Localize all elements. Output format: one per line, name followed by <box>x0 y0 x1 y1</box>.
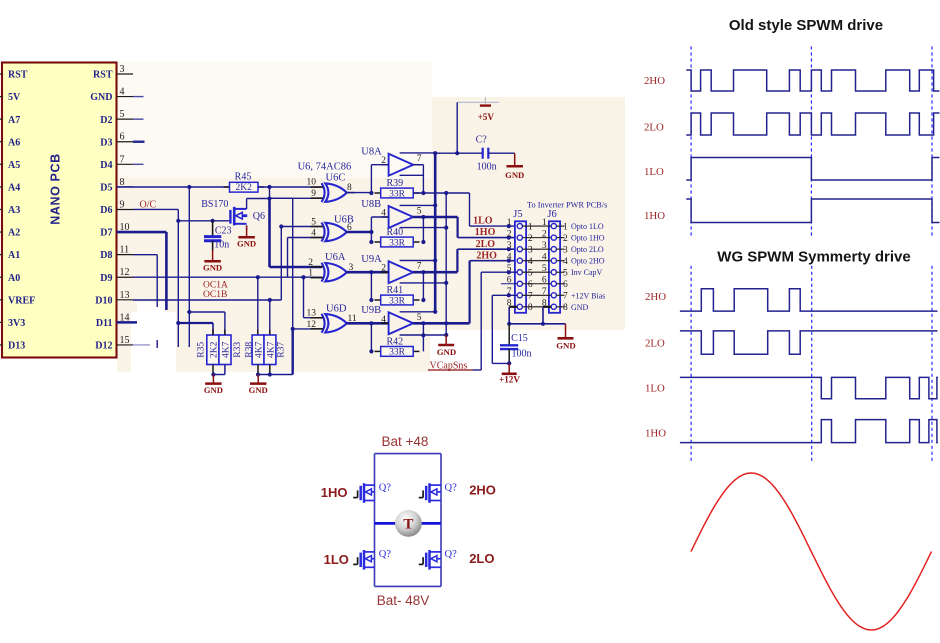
wire remnant <box>156 340 158 348</box>
wire J5-J6 row 1 <box>522 225 551 227</box>
svg-text:Bat +48: Bat +48 <box>382 434 429 449</box>
wire U9B top rail to bus <box>400 311 436 313</box>
svg-text:GND: GND <box>249 385 268 395</box>
svg-text:U9B: U9B <box>361 305 381 316</box>
J6 pin 5 <box>551 270 556 275</box>
wire O/C to Q6 gate <box>178 220 229 222</box>
svg-text:D13: D13 <box>8 341 25 352</box>
resistor R38 4K7 <box>252 335 264 365</box>
svg-text:T: T <box>403 517 413 533</box>
nano right pin D9 (pin 12) <box>117 276 134 278</box>
wire U9A bottom rail <box>400 282 447 284</box>
J5 pin 8 <box>517 304 522 309</box>
svg-text:A1: A1 <box>8 250 20 261</box>
svg-text:Opto 2LO: Opto 2LO <box>571 245 604 254</box>
svg-text:1LO: 1LO <box>645 383 665 395</box>
capacitor C? 100n <box>482 148 484 159</box>
wire U8B output to 1HO (thick) <box>413 216 457 219</box>
wire ground bus x435 (thick) <box>434 153 437 312</box>
svg-text:2HO: 2HO <box>476 250 497 261</box>
svg-text:GND: GND <box>90 92 112 103</box>
svg-text:4: 4 <box>120 87 125 98</box>
svg-text:6: 6 <box>120 132 125 143</box>
svg-text:4: 4 <box>381 315 386 325</box>
nano right pin D3 (pin 6) <box>117 141 134 143</box>
resistor R41 33R <box>375 299 381 301</box>
svg-text:VREF: VREF <box>8 295 35 306</box>
svg-text:2K2: 2K2 <box>236 183 253 193</box>
wire R45 node to U6C pin9 <box>270 197 323 199</box>
J6 pin 7 <box>551 293 556 298</box>
wire bridge top rail <box>375 453 442 455</box>
svg-text:2LO: 2LO <box>476 239 496 250</box>
svg-text:4: 4 <box>311 229 316 239</box>
svg-text:C?: C? <box>476 135 488 146</box>
nano left pin A3 <box>0 208 3 210</box>
svg-text:7: 7 <box>417 262 422 272</box>
J6 pin 3 <box>551 247 556 252</box>
J5 pin 4 <box>517 258 522 263</box>
svg-text:2K2: 2K2 <box>209 341 219 358</box>
J5 pin 2 <box>517 235 522 240</box>
ground R38 <box>257 375 259 383</box>
svg-text:7: 7 <box>417 154 422 164</box>
wire net D7 (pin10) <box>117 231 167 234</box>
svg-text:A7: A7 <box>8 115 20 126</box>
svg-text:U6, 74AC86: U6, 74AC86 <box>298 161 352 172</box>
wire J5-J6 row 3 <box>522 248 551 250</box>
svg-text:1HO: 1HO <box>644 210 665 222</box>
resistor R39 33R <box>375 192 381 194</box>
svg-text:5: 5 <box>542 264 547 274</box>
wire U8A bottom rail <box>400 174 424 176</box>
svg-text:7: 7 <box>528 292 533 302</box>
wire to U6A pin2 <box>270 266 323 269</box>
grid dashed line w2 <box>931 266 933 464</box>
wire O/C vertical <box>177 209 179 347</box>
svg-text:5: 5 <box>120 109 125 120</box>
J6 pin 1 <box>551 224 556 229</box>
svg-text:1LO: 1LO <box>473 215 493 226</box>
svg-text:33R: 33R <box>389 348 406 358</box>
svg-text:2LO: 2LO <box>469 551 494 566</box>
wire C15 bottom node <box>508 349 510 363</box>
wire OC1A branch to U6D pin13 <box>303 277 305 317</box>
svg-text:U8A: U8A <box>361 147 382 158</box>
svg-text:RST: RST <box>8 70 28 81</box>
wire stub pin6 <box>133 140 145 143</box>
svg-text:15: 15 <box>120 335 130 346</box>
nano right pin D4 (pin 7) <box>117 163 134 165</box>
svg-text:3: 3 <box>528 245 533 255</box>
nano right pin D12 (pin 15) <box>117 344 134 346</box>
svg-text:33R: 33R <box>389 238 406 248</box>
svg-text:5V: 5V <box>8 92 21 103</box>
wire bus top to C? <box>435 152 483 154</box>
J5 pin 6 <box>517 281 522 286</box>
ground R35 <box>212 375 214 383</box>
xor gate U6A <box>325 263 347 281</box>
svg-text:5: 5 <box>311 217 316 227</box>
grid dashed line t2 <box>931 46 933 237</box>
svg-text:7: 7 <box>542 287 547 297</box>
resistor R40 33R <box>375 241 381 243</box>
nano right pin D5 (pin 8) <box>117 186 134 188</box>
svg-text:5: 5 <box>417 313 422 323</box>
nano left pin A1 <box>0 254 3 256</box>
wire R40 output vertical <box>422 217 424 242</box>
svg-text:D7: D7 <box>100 228 112 239</box>
svg-text:C15: C15 <box>511 333 528 344</box>
grid dashed line t0 <box>690 46 692 237</box>
svg-text:1HO: 1HO <box>321 485 348 500</box>
wire R38/R37 bottoms rail <box>257 365 259 375</box>
svg-text:R37: R37 <box>277 342 287 358</box>
J5 pin 1 <box>517 224 522 229</box>
svg-text:2HO: 2HO <box>645 291 666 303</box>
wire OC1B up to U6B pin5 <box>280 227 282 301</box>
wire +12V to J5 pin7 <box>492 294 517 296</box>
svg-text:+12V: +12V <box>499 375 520 385</box>
wire U8A input <box>370 165 372 193</box>
resistor R35 2K2 <box>207 335 219 365</box>
svg-text:To Inverter PWR PCB/s: To Inverter PWR PCB/s <box>527 200 607 209</box>
nano right pin D6 (pin 9) <box>117 208 134 210</box>
J6 pin 6 <box>551 281 556 286</box>
svg-text:GND: GND <box>571 303 589 312</box>
svg-text:13: 13 <box>120 290 130 301</box>
svg-text:3: 3 <box>542 241 547 251</box>
svg-text:D5: D5 <box>100 183 112 194</box>
svg-text:A6: A6 <box>8 137 20 148</box>
wire net OC1A (pin12) to U6A pin1 <box>133 276 322 278</box>
svg-text:O/C: O/C <box>140 199 157 210</box>
wire J5-J6 row 2 <box>522 237 551 239</box>
wire stub pin7 <box>133 163 144 165</box>
nano left pin A2 <box>0 231 3 233</box>
xor gate U6C (U6 74AC86) <box>325 183 347 201</box>
svg-text:3: 3 <box>507 241 512 251</box>
svg-text:GND: GND <box>556 341 576 351</box>
svg-text:D12: D12 <box>95 341 112 352</box>
svg-text:9: 9 <box>311 189 316 199</box>
svg-text:7: 7 <box>563 292 568 302</box>
svg-text:R33: R33 <box>233 342 243 358</box>
svg-text:OC1B: OC1B <box>203 290 227 300</box>
transistor Q? 1LO low-side <box>363 550 366 570</box>
xor gate U6B <box>325 223 347 241</box>
wire J5 pin8 to ground rail <box>509 306 517 308</box>
ground Q6 source <box>246 225 248 230</box>
svg-text:2: 2 <box>528 234 533 244</box>
wire J5-J6 row 7 <box>522 294 551 296</box>
svg-text:4: 4 <box>507 252 512 262</box>
svg-text:U6D: U6D <box>326 303 347 314</box>
wire R45 output to U6C pin 10 <box>258 186 322 188</box>
svg-text:WG SPWM Symmerty drive: WG SPWM Symmerty drive <box>717 249 910 266</box>
svg-text:6: 6 <box>347 223 352 233</box>
wire U6D output pin11 <box>347 322 389 325</box>
svg-text:R35: R35 <box>197 342 207 358</box>
svg-text:Q?: Q? <box>379 549 392 560</box>
nano right pin RST (pin 3) <box>117 73 134 75</box>
svg-text:33R: 33R <box>389 296 406 306</box>
svg-text:5: 5 <box>528 269 533 279</box>
nano right pin D2 (pin 5) <box>117 118 134 120</box>
svg-text:A0: A0 <box>8 273 20 284</box>
svg-text:D8: D8 <box>100 250 112 261</box>
wire R42 output vertical <box>422 323 424 351</box>
wire U6A output pin3 <box>347 271 389 274</box>
svg-text:2LO: 2LO <box>645 338 665 350</box>
wire U9A input/R41 drop <box>370 272 372 300</box>
svg-text:J5: J5 <box>513 209 522 220</box>
ground C23 <box>212 241 214 251</box>
svg-text:C23: C23 <box>215 225 232 236</box>
wire U8B input <box>370 217 372 242</box>
svg-text:8: 8 <box>347 183 352 193</box>
wire R41 output vertical <box>422 272 424 300</box>
resistor R42 33R <box>375 350 381 352</box>
svg-text:R39: R39 <box>387 178 404 189</box>
J6 pin 2 <box>551 235 556 240</box>
nano left pin 5V <box>0 96 3 98</box>
nano left pin RST <box>0 73 3 75</box>
svg-text:8: 8 <box>528 303 533 313</box>
nano left pin A0 <box>0 276 3 278</box>
wire OC1B branch to R37 <box>269 300 271 335</box>
capacitor C23 10n <box>212 221 214 236</box>
wire net O/C from pin9 <box>133 208 178 210</box>
svg-text:2: 2 <box>507 229 512 239</box>
wire net D5 (pin8) to R45 <box>117 186 230 188</box>
svg-text:6: 6 <box>542 276 547 286</box>
schematic background tint <box>117 178 430 372</box>
svg-text:4: 4 <box>563 257 568 267</box>
svg-text:Q?: Q? <box>445 482 458 493</box>
wire U6B output pin6 <box>347 231 372 234</box>
svg-text:1LO: 1LO <box>644 166 664 178</box>
wire U6B pin4 feed <box>287 238 289 278</box>
nano left pin A7 <box>0 118 3 120</box>
wire J5-J6 row 4 <box>522 260 551 262</box>
svg-text:4: 4 <box>528 257 533 267</box>
svg-text:A2: A2 <box>8 228 20 239</box>
svg-text:J6: J6 <box>547 209 556 220</box>
transistor Q? 2HO high-side <box>428 483 431 503</box>
transistor Q? 1HO high-side <box>363 483 366 503</box>
J5 pin 5 <box>517 270 522 275</box>
wire R45 node down (thick) <box>269 187 271 199</box>
svg-text:12: 12 <box>307 320 317 330</box>
svg-text:Opto 1HO: Opto 1HO <box>571 234 605 243</box>
nano right pin D11 (pin 14) <box>117 321 134 323</box>
wire vertical bus x446 <box>445 193 447 335</box>
wire D5 branch down to R33 <box>188 187 190 312</box>
svg-text:2: 2 <box>381 264 386 274</box>
svg-text:Opto 1LO: Opto 1LO <box>571 222 604 231</box>
transistor Q? 2LO low-side <box>428 550 431 570</box>
wire U9B input/R42 drop <box>370 323 372 351</box>
nano left pin A4 <box>0 186 3 188</box>
svg-text:Q6: Q6 <box>253 211 265 222</box>
svg-text:GND: GND <box>505 170 524 180</box>
wire U8A top rail to bus <box>400 152 436 154</box>
svg-text:1HO: 1HO <box>475 227 496 238</box>
svg-text:1HO: 1HO <box>645 428 666 440</box>
grid dashed line t1 <box>810 46 812 237</box>
svg-text:3: 3 <box>349 263 354 273</box>
svg-text:6: 6 <box>563 280 568 290</box>
nano left pin A6 <box>0 141 3 143</box>
svg-text:8: 8 <box>120 177 125 188</box>
wire U6C output pin8 <box>347 192 372 194</box>
svg-text:Bat- 48V: Bat- 48V <box>377 593 430 608</box>
svg-text:Old style SPWM drive: Old style SPWM drive <box>729 17 883 34</box>
wire VCapSns to J5 pin5 <box>473 369 481 371</box>
nano right pin D8 (pin 11) <box>117 254 134 256</box>
J5 pin 7 <box>517 293 522 298</box>
svg-text:2HO: 2HO <box>644 75 665 87</box>
svg-text:GND: GND <box>437 347 457 357</box>
svg-text:+5V: +5V <box>478 112 495 122</box>
svg-text:Opto 2HO: Opto 2HO <box>571 257 605 266</box>
wire OC1A branch to R38 <box>257 277 259 335</box>
wire net D11 (pin14) <box>117 321 138 324</box>
transistor Q6 BS170 <box>229 210 231 224</box>
svg-text:BS170: BS170 <box>201 199 228 210</box>
svg-text:D2: D2 <box>100 115 112 126</box>
svg-text:NANO PCB: NANO PCB <box>48 153 62 224</box>
wire bridge right rail <box>440 454 442 587</box>
svg-text:Q?: Q? <box>379 482 392 493</box>
svg-text:R38: R38 <box>244 342 254 358</box>
op-amp buffer U9A <box>389 261 414 283</box>
svg-text:4: 4 <box>542 252 547 262</box>
svg-text:2LO: 2LO <box>644 122 664 134</box>
wire R45 node jog to U6D pin12 <box>270 197 293 199</box>
resistor R45 2K2 <box>224 186 230 188</box>
connector J5 <box>515 221 526 312</box>
wire U8B top rail to bus <box>400 204 436 206</box>
J6 pin 8 <box>551 304 556 309</box>
wire Q6 drain to R45 output node <box>246 199 248 209</box>
wire stub pin5 <box>133 118 144 120</box>
svg-text:D11: D11 <box>96 318 113 329</box>
wire U9B bottom rail to ground <box>400 334 447 336</box>
ground C? <box>514 153 516 165</box>
svg-text:11: 11 <box>120 245 130 256</box>
svg-text:1: 1 <box>542 218 547 228</box>
svg-text:11: 11 <box>348 314 357 324</box>
svg-text:A4: A4 <box>8 183 20 194</box>
wire stub pin4 <box>133 96 144 98</box>
grid dashed line w0 <box>690 266 692 464</box>
svg-text:GND: GND <box>204 385 223 395</box>
svg-text:2HO: 2HO <box>469 483 496 498</box>
power +5V <box>457 101 499 103</box>
svg-text:2: 2 <box>308 258 313 268</box>
motor T <box>395 510 422 537</box>
wire net OC1B (pin13) <box>133 299 281 301</box>
nano right pin GND (pin 4) <box>117 96 134 98</box>
resistor R33 4K7 <box>219 335 231 365</box>
wire J5 pin6 stub <box>501 283 517 285</box>
svg-text:7: 7 <box>120 154 125 165</box>
connector J6 <box>549 221 560 312</box>
svg-text:D6: D6 <box>100 205 112 216</box>
nano pcb module U? (Arduino Nano) <box>2 63 117 358</box>
wire motor link <box>375 522 442 525</box>
ground bus x446 <box>445 335 447 344</box>
capacitor C15 100n <box>508 324 510 345</box>
svg-text:D4: D4 <box>100 160 112 171</box>
nano left pin A5 <box>0 163 3 165</box>
svg-text:100n: 100n <box>477 162 497 173</box>
svg-text:D10: D10 <box>95 295 112 306</box>
svg-text:5: 5 <box>563 269 568 279</box>
svg-text:1: 1 <box>507 218 512 228</box>
wire ground rail under connectors <box>509 323 565 325</box>
svg-text:GND: GND <box>203 262 222 272</box>
svg-text:U6A: U6A <box>325 252 346 263</box>
svg-text:13: 13 <box>307 309 317 319</box>
op-amp buffer U9B <box>389 312 414 334</box>
power +12V <box>508 363 510 372</box>
wire +5V drop <box>456 102 458 153</box>
wire pin14 row to R35 <box>178 322 213 324</box>
svg-text:3: 3 <box>120 64 125 75</box>
svg-text:GND: GND <box>237 238 256 248</box>
xor gate U6D <box>325 314 347 332</box>
svg-text:A5: A5 <box>8 160 20 171</box>
op-amp buffer U8B <box>389 206 414 228</box>
svg-text:3: 3 <box>563 245 568 255</box>
wire U9B output to 2HO (thick) <box>413 322 469 325</box>
svg-text:10: 10 <box>307 178 317 188</box>
svg-text:10n: 10n <box>214 240 229 251</box>
svg-text:9: 9 <box>120 199 125 210</box>
svg-text:RST: RST <box>93 70 113 81</box>
svg-text:1: 1 <box>563 222 568 232</box>
svg-text:3V3: 3V3 <box>8 318 25 329</box>
svg-text:Inv CapV: Inv CapV <box>571 268 603 277</box>
svg-text:U8B: U8B <box>361 199 381 210</box>
wire R39 output to 1LO <box>413 192 469 194</box>
svg-text:2: 2 <box>563 234 568 244</box>
svg-text:OC1A: OC1A <box>203 281 228 291</box>
wire J5-J6 row 5 <box>522 271 551 273</box>
svg-text:R42: R42 <box>387 337 404 348</box>
wire U8A output <box>413 164 423 166</box>
svg-text:6: 6 <box>528 280 533 290</box>
wire U9A output to 2LO (thick) <box>413 271 457 274</box>
svg-text:D3: D3 <box>100 137 112 148</box>
wire J5-J6 row 8 <box>522 306 551 308</box>
svg-text:1: 1 <box>528 222 533 232</box>
nano right pin D7 (pin 10) <box>117 231 134 233</box>
svg-text:12: 12 <box>120 267 130 278</box>
wire U6D pin12 node down to resistor rail <box>292 329 294 375</box>
nano left pin VREF <box>0 299 3 301</box>
svg-text:R41: R41 <box>387 285 404 296</box>
wire C? to ground <box>488 152 514 154</box>
op-amp buffer U8A <box>389 154 414 176</box>
wire bridge bottom rail <box>375 585 442 587</box>
wire J5-J6 row 6 <box>522 283 551 285</box>
svg-text:Q?: Q? <box>445 549 458 560</box>
svg-text:2: 2 <box>542 229 547 239</box>
